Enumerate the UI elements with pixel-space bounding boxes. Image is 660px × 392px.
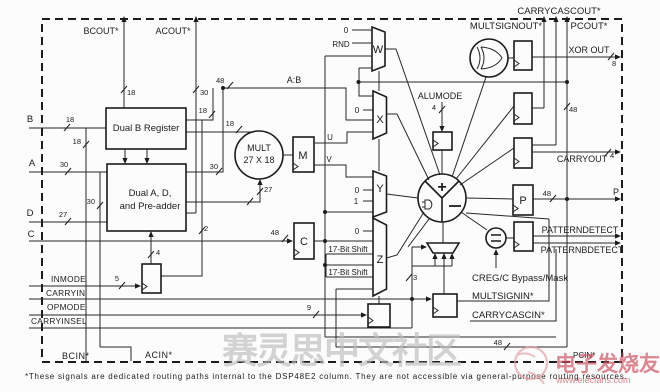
svg-text:48: 48 [216, 76, 224, 85]
svg-text:PATTERNDETECT: PATTERNDETECT [542, 225, 619, 235]
svg-text:MULTSIGNIN*: MULTSIGNIN* [472, 291, 534, 302]
svg-text:C: C [28, 229, 35, 240]
svg-text:CARRYIN: CARRYIN [46, 288, 85, 298]
svg-text:0: 0 [344, 26, 349, 35]
svg-text:XOR OUT: XOR OUT [568, 45, 610, 55]
svg-text:RND: RND [332, 40, 350, 49]
svg-text:4: 4 [432, 103, 436, 112]
svg-text:CARRYOUT: CARRYOUT [557, 154, 608, 164]
svg-text:Z: Z [377, 254, 384, 266]
svg-text:30: 30 [60, 160, 68, 169]
svg-text:A:B: A:B [287, 75, 302, 85]
svg-text:CARRYCASCIN*: CARRYCASCIN* [472, 310, 545, 321]
svg-text:3: 3 [413, 273, 417, 282]
svg-text:+: + [437, 179, 446, 196]
svg-text:BCOUT*: BCOUT* [83, 26, 119, 36]
svg-text:8: 8 [612, 59, 616, 68]
svg-text:P: P [519, 195, 526, 207]
svg-text:48: 48 [494, 338, 502, 347]
svg-text:C: C [300, 236, 308, 248]
svg-text:M: M [298, 150, 307, 162]
svg-text:Dual A, D,: Dual A, D, [129, 188, 172, 199]
svg-text:48: 48 [569, 105, 577, 114]
svg-text:18: 18 [127, 88, 135, 97]
svg-text:0: 0 [355, 186, 360, 195]
svg-text:18: 18 [73, 137, 81, 146]
svg-text:0: 0 [355, 227, 360, 236]
svg-text:27 X 18: 27 X 18 [243, 155, 274, 165]
svg-text:www.elecfans.com: www.elecfans.com [555, 375, 631, 385]
svg-text:and Pre-adder: and Pre-adder [120, 201, 181, 212]
svg-text:27: 27 [264, 185, 272, 194]
svg-text:5: 5 [115, 274, 119, 283]
svg-text:MULT: MULT [247, 143, 271, 153]
svg-text:U: U [327, 133, 333, 142]
svg-text:P: P [613, 187, 619, 197]
svg-text:ACOUT*: ACOUT* [155, 26, 191, 36]
svg-text:30: 30 [210, 162, 218, 171]
svg-text:48: 48 [543, 189, 551, 198]
svg-text:ACIN*: ACIN* [145, 350, 173, 360]
svg-text:X: X [376, 114, 384, 126]
svg-text:电子发烧友: 电子发烧友 [555, 352, 660, 376]
svg-text:PCOUT*: PCOUT* [571, 21, 608, 32]
svg-text:PATTERNBDETECT: PATTERNBDETECT [541, 245, 624, 255]
svg-text:Y: Y [376, 183, 384, 195]
svg-text:INMODE: INMODE [51, 274, 86, 284]
svg-text:赛灵思中文社区: 赛灵思中文社区 [222, 330, 461, 371]
svg-text:CREG/C Bypass/Mask: CREG/C Bypass/Mask [472, 273, 568, 284]
svg-text:4: 4 [610, 151, 614, 160]
svg-text:MULTSIGNOUT*: MULTSIGNOUT* [470, 21, 542, 32]
svg-text:48: 48 [271, 228, 279, 237]
svg-text:0: 0 [355, 106, 360, 115]
svg-text:17-Bit Shift: 17-Bit Shift [328, 268, 368, 277]
svg-text:CARRYINSEL: CARRYINSEL [31, 316, 87, 326]
svg-text:30: 30 [200, 88, 208, 97]
svg-text:B: B [27, 114, 33, 125]
svg-text:OPMODE: OPMODE [47, 302, 86, 312]
svg-text:2: 2 [204, 224, 208, 233]
svg-text:4: 4 [156, 248, 160, 257]
svg-text:17-Bit Shift: 17-Bit Shift [328, 245, 368, 254]
svg-text:CARRYCASCOUT*: CARRYCASCOUT* [517, 6, 601, 17]
svg-text:18: 18 [226, 119, 234, 128]
svg-text:BCIN*: BCIN* [62, 351, 90, 361]
svg-text:W: W [373, 44, 384, 56]
svg-text:27: 27 [59, 210, 67, 219]
svg-text:D: D [27, 208, 34, 219]
svg-text:30: 30 [87, 197, 95, 206]
svg-text:1: 1 [354, 197, 359, 206]
svg-text:18: 18 [66, 115, 74, 124]
svg-text:A: A [29, 158, 36, 169]
svg-text:9: 9 [307, 303, 311, 312]
svg-text:V: V [326, 155, 332, 164]
svg-text:18: 18 [199, 106, 207, 115]
svg-text:ALUMODE: ALUMODE [418, 91, 463, 101]
svg-text:Dual B Register: Dual B Register [113, 123, 180, 134]
